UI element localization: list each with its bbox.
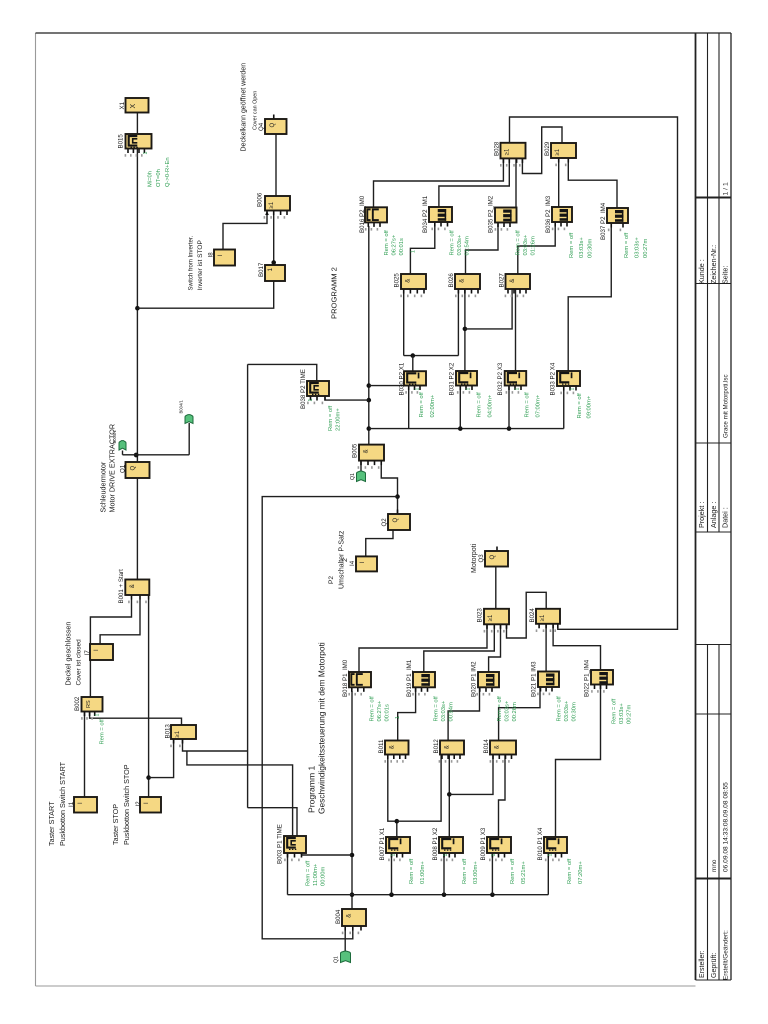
pulse relay B008 xyxy=(432,827,479,884)
operating hours counter B015 xyxy=(117,134,171,187)
wire B032 out to B027 pin2 xyxy=(515,289,517,371)
svg-text:≥1: ≥1 xyxy=(269,201,275,208)
svg-text:Cover ist closed: Cover ist closed xyxy=(76,639,83,686)
and gate B001 xyxy=(118,569,150,604)
svg-text:00:27m: 00:27m xyxy=(643,238,649,258)
svg-text:B006: B006 xyxy=(256,192,263,207)
branch to B038 pin3 xyxy=(325,396,369,400)
svg-text:B007 P1 X1: B007 P1 X1 xyxy=(379,827,386,860)
wire stop net to B003 top-right xyxy=(248,808,297,836)
svg-text:06.09.08 14:33:08.09.08 08:55: 06.09.08 14:33:08.09.08 08:55 xyxy=(723,782,730,872)
branch to B030 pin1 xyxy=(369,385,409,387)
svg-text:B029: B029 xyxy=(544,141,551,156)
svg-text:1: 1 xyxy=(415,388,421,391)
svg-text:OT=0h: OT=0h xyxy=(156,169,162,187)
wire stop net vertical xyxy=(247,364,249,807)
pulse relay B031 xyxy=(448,362,493,417)
svg-text:Rem = off: Rem = off xyxy=(612,698,618,724)
wire B019 out to B023 pin2 xyxy=(424,624,495,672)
stairway switch B037 xyxy=(600,202,649,258)
svg-text:B009 P1 X3: B009 P1 X3 xyxy=(480,827,487,860)
svg-text:B001 + Start: B001 + Start xyxy=(118,569,125,604)
wire B029 out to B028 pin4 xyxy=(522,127,562,174)
or gate B024 xyxy=(529,608,560,632)
svg-text:B014: B014 xyxy=(483,739,490,754)
or gate B013 xyxy=(164,724,196,748)
svg-text:I7: I7 xyxy=(84,650,91,656)
svg-text:05:21m+: 05:21m+ xyxy=(521,861,527,884)
svg-text:09:00m+: 09:00m+ xyxy=(587,395,593,418)
wire B037 out to B029 pin2 xyxy=(568,162,617,208)
svg-text:Grace mit Motorpoti.lsc: Grace mit Motorpoti.lsc xyxy=(723,374,730,438)
svg-text:22:00m+: 22:00m+ xyxy=(336,408,342,431)
output Q2 xyxy=(381,510,410,531)
and gate B011 xyxy=(378,739,409,763)
wire B004 out bus xyxy=(351,691,353,909)
svg-text:Rem = off: Rem = off xyxy=(450,230,456,256)
svg-text:11:00m+: 11:00m+ xyxy=(313,863,319,886)
svg-text:Puskbotton Switch START: Puskbotton Switch START xyxy=(58,761,67,846)
svg-text:B037 P2_IM4: B037 P2_IM4 xyxy=(600,202,607,240)
svg-text:Q1: Q1 xyxy=(120,464,127,473)
svg-text:B019 P1_IM1: B019 P1_IM1 xyxy=(406,659,413,697)
wire stop net to B038 top xyxy=(248,364,317,381)
svg-text:B038 P2 TIME: B038 P2 TIME xyxy=(300,369,307,409)
wire B034 out to B028 pin2 xyxy=(439,158,509,207)
svg-text:Q->0-R+En: Q->0-R+En xyxy=(165,157,171,187)
svg-text:Rem = off: Rem = off xyxy=(419,392,425,418)
wire B008 out to B012 B014 xyxy=(448,755,450,838)
svg-text:Switch from Inverter.: Switch from Inverter. xyxy=(189,235,195,290)
wire I1 to B002 S xyxy=(84,711,86,797)
wire B020 out to B023 pin3 xyxy=(489,624,501,672)
wire B005 flag stem xyxy=(360,461,362,471)
flag B004/1 xyxy=(185,415,193,424)
wire B009 out to B014 xyxy=(499,755,506,838)
svg-text:B030 P2 X1: B030 P2 X1 xyxy=(398,362,405,395)
page frame right border xyxy=(730,33,732,980)
svg-text:X1: X1 xyxy=(119,101,126,109)
wire I4 to Q2 input xyxy=(366,530,393,556)
stairway switch B034 xyxy=(422,195,471,255)
wire B023 out to Q3 xyxy=(495,566,497,609)
svg-text:00:01s: 00:01s xyxy=(399,238,405,256)
wire B022 out to B024 pin3 xyxy=(553,624,600,670)
wire B026 out to B035 pin1 xyxy=(466,223,499,274)
svg-text:Q2: Q2 xyxy=(381,518,388,527)
flag Q1 feedback B004 xyxy=(341,951,351,962)
connector X1 xyxy=(119,98,149,113)
svg-text:mno: mno xyxy=(711,859,718,872)
svg-text:Taster STOP: Taster STOP xyxy=(111,804,120,845)
svg-text:&: & xyxy=(406,279,412,283)
svg-text:B026: B026 xyxy=(448,273,455,288)
svg-text:00:54m: 00:54m xyxy=(449,702,455,722)
svg-text:Geprüft:: Geprüft: xyxy=(711,953,718,978)
svg-text:Datei :: Datei : xyxy=(721,507,730,528)
svg-text:Projekt :: Projekt : xyxy=(697,502,706,528)
svg-text:B015: B015 xyxy=(117,134,124,149)
svg-text:Q3: Q3 xyxy=(478,554,485,563)
svg-text:03:03s+: 03:03s+ xyxy=(457,234,463,255)
svg-text:Seite:: Seite: xyxy=(721,266,730,284)
wire B018 out to B023 pin1 xyxy=(359,624,487,672)
pulse relay B007 xyxy=(379,827,426,884)
svg-text:1: 1 xyxy=(466,388,472,391)
input I1 xyxy=(68,797,97,813)
svg-text:Erstellt/Geändert:: Erstellt/Geändert: xyxy=(723,930,730,980)
svg-text:B024: B024 xyxy=(529,608,536,623)
svg-text:I1: I1 xyxy=(68,801,75,807)
svg-text:03:00m+: 03:00m+ xyxy=(473,861,479,884)
svg-text:Q: Q xyxy=(131,466,137,471)
svg-text:Rem = off: Rem = off xyxy=(306,860,312,886)
or gate B028 xyxy=(493,141,525,167)
timer B038 xyxy=(300,369,342,431)
page frame left border xyxy=(35,33,37,986)
svg-text:I4: I4 xyxy=(349,560,356,566)
svg-text:Rem = off: Rem = off xyxy=(100,719,106,745)
svg-text:B034 P2_IM1: B034 P2_IM1 xyxy=(422,195,429,233)
pulse relay B033 xyxy=(549,362,592,418)
svg-text:1: 1 xyxy=(143,152,149,155)
and gate B025 xyxy=(393,273,426,298)
svg-text:Rem = off: Rem = off xyxy=(434,696,440,722)
svg-text:B017: B017 xyxy=(258,262,265,277)
svg-text:Programm 1: Programm 1 xyxy=(307,766,317,813)
svg-text:00:00m: 00:00m xyxy=(321,866,327,886)
wire B030 out rail to B025 B026 xyxy=(404,355,459,357)
pulse relay B010 xyxy=(537,827,584,884)
wire stop net branch to B003 top-left xyxy=(187,751,293,836)
svg-text:00:30m: 00:30m xyxy=(572,702,578,722)
svg-text:Zeichen-Nr.:: Zeichen-Nr.: xyxy=(709,245,718,284)
and gate B004 xyxy=(335,909,366,934)
svg-text:≥1: ≥1 xyxy=(175,730,181,737)
svg-text:&: & xyxy=(510,279,516,283)
wire B017 input from run net xyxy=(135,306,140,311)
svg-text:B011: B011 xyxy=(378,739,385,753)
svg-text:03:03s+: 03:03s+ xyxy=(635,237,641,258)
svg-text:03:03s+: 03:03s+ xyxy=(579,237,585,258)
svg-text:Rem = off: Rem = off xyxy=(477,392,483,418)
flag B005/1 xyxy=(119,441,126,450)
wire main run net X1-B015-Q1 xyxy=(136,113,138,463)
svg-text:1 / 1: 1 / 1 xyxy=(723,182,730,195)
svg-text:B021 P1 IM3: B021 P1 IM3 xyxy=(530,661,537,697)
svg-text:03:03s+: 03:03s+ xyxy=(441,700,447,721)
svg-text:B028: B028 xyxy=(493,141,500,156)
svg-text:Rem = off: Rem = off xyxy=(577,393,583,419)
svg-text:Rem = off: Rem = off xyxy=(328,405,334,431)
wire I8 to B006 pin1 xyxy=(223,214,267,249)
output Q4 xyxy=(258,115,287,135)
svg-text:Q1: Q1 xyxy=(350,473,356,480)
wire B028 out long to B024 pin4 xyxy=(510,117,678,629)
wire B036 out to B029 pin1 xyxy=(558,162,560,207)
wire B005 out bus program2 xyxy=(368,226,370,445)
svg-text:1: 1 xyxy=(411,250,417,253)
input I2 xyxy=(135,797,161,813)
svg-text:Q4: Q4 xyxy=(258,122,265,131)
svg-text:Schleudermotor: Schleudermotor xyxy=(98,461,107,512)
wire Q2 passthrough net xyxy=(381,465,397,514)
svg-text:&: & xyxy=(364,449,370,453)
rail program2 trigger xyxy=(369,428,564,430)
svg-text:Q: Q xyxy=(270,123,276,128)
svg-text:RS: RS xyxy=(86,700,92,708)
pulse relay B030 xyxy=(398,362,436,417)
svg-text:B002: B002 xyxy=(74,696,81,711)
svg-text:B004: B004 xyxy=(335,909,342,924)
svg-text:B005: B005 xyxy=(351,443,358,458)
svg-text:1: 1 xyxy=(548,854,554,857)
svg-text:&: & xyxy=(495,745,501,749)
and gate B026 xyxy=(448,273,480,298)
pulse relay B032 xyxy=(497,362,542,417)
icon text B017 xyxy=(267,268,274,272)
svg-text:06:27s+: 06:27s+ xyxy=(377,700,383,721)
wire Q1 to B001 xyxy=(136,478,138,580)
wire I2 net to B013 pin1 xyxy=(149,739,174,778)
svg-text:P2: P2 xyxy=(328,576,335,584)
and gate B014 xyxy=(483,739,516,763)
wire to flag B005/1 xyxy=(123,454,138,456)
flag Q1 feedback B005 xyxy=(357,471,366,481)
svg-text:03:03s+: 03:03s+ xyxy=(619,703,625,724)
svg-text:Rem = off: Rem = off xyxy=(510,858,516,884)
wire I2 net to B001 pin3 xyxy=(148,600,150,798)
svg-text:≥1: ≥1 xyxy=(488,614,494,621)
svg-text:1: 1 xyxy=(308,399,314,402)
stairway switch B035 xyxy=(487,195,536,255)
svg-text:B004/1: B004/1 xyxy=(179,400,184,414)
svg-text:B013: B013 xyxy=(164,724,171,739)
stairway switch B020 xyxy=(470,661,518,722)
svg-text:Rem = off: Rem = off xyxy=(462,858,468,884)
and gate B005 xyxy=(351,443,384,469)
or gate B029 xyxy=(544,141,576,166)
input I7 xyxy=(84,644,113,660)
timer B003 xyxy=(276,824,326,886)
wire B014 out to B021 pin1 xyxy=(499,687,540,740)
wire B035 out to B028 pin3 xyxy=(515,158,517,207)
svg-text:Taster START: Taster START xyxy=(47,801,56,846)
wire B013 pin2 net xyxy=(183,739,248,751)
svg-text:01:00m+: 01:00m+ xyxy=(420,861,426,884)
not gate B017 xyxy=(258,262,285,281)
arrow at B006 pin1 xyxy=(265,211,269,215)
wire B002 out to B001 pin1 xyxy=(90,600,131,698)
svg-text:03:03s+: 03:03s+ xyxy=(505,700,511,721)
svg-text:Inverter ist STOP: Inverter ist STOP xyxy=(197,239,204,290)
svg-text:B032 P2 X3: B032 P2 X3 xyxy=(497,362,504,395)
page frame bottom border xyxy=(36,985,696,987)
svg-text:X: X xyxy=(130,104,137,109)
svg-text:1: 1 xyxy=(395,716,401,719)
svg-text:I8: I8 xyxy=(207,252,214,258)
stairway switch B022 xyxy=(583,659,632,724)
wire B013 out to B002 R xyxy=(90,711,182,725)
svg-text:Rem = off: Rem = off xyxy=(370,696,376,722)
input I4 xyxy=(349,556,377,571)
svg-text:B033 P2 X4: B033 P2 X4 xyxy=(549,362,556,395)
stairway switch B036 xyxy=(545,195,594,258)
rs latch B002 xyxy=(74,696,106,744)
svg-text:B018 P1_IM0: B018 P1_IM0 xyxy=(342,659,349,697)
rail program1 trigger xyxy=(288,894,549,896)
output Q1 motor xyxy=(120,462,150,478)
wire B031 out to B026 pin2 and B027 pin1 xyxy=(464,289,466,371)
svg-text:1: 1 xyxy=(570,388,576,391)
page frame top border xyxy=(36,32,732,34)
junction Q2 net xyxy=(395,494,400,499)
svg-text:B027: B027 xyxy=(498,273,505,288)
svg-text:B020 P1 IM2: B020 P1 IM2 xyxy=(470,661,477,697)
svg-text:Rem = off: Rem = off xyxy=(567,858,573,884)
svg-text:Rem = off: Rem = off xyxy=(516,230,522,256)
wire Q2 net to B004 pin2 xyxy=(262,497,397,939)
svg-text:Rem = off: Rem = off xyxy=(384,230,390,256)
svg-text:01:54m: 01:54m xyxy=(465,236,471,256)
svg-text:≥1: ≥1 xyxy=(540,614,546,621)
wire I7 to B001 pin2 xyxy=(100,600,140,645)
svg-text:03:03s+: 03:03s+ xyxy=(564,700,570,721)
wire B021 out to B024 pin2 xyxy=(545,624,547,672)
pulse generator B016 xyxy=(359,195,405,255)
or gate B006 xyxy=(256,192,290,219)
stairway switch B019 xyxy=(406,659,455,721)
svg-text:06:27s+: 06:27s+ xyxy=(392,234,398,255)
wire B024 out to B023 pin4 xyxy=(507,592,547,638)
svg-text:PROGRAMM 2: PROGRAMM 2 xyxy=(330,267,339,319)
svg-text:1: 1 xyxy=(95,714,101,717)
wire B027 out to B036 pin1 xyxy=(518,222,555,274)
svg-text:I2: I2 xyxy=(135,801,142,807)
svg-text:Rem = off: Rem = off xyxy=(557,696,563,722)
svg-text:B003 P1 TIME: B003 P1 TIME xyxy=(276,824,283,864)
svg-text:00:01s: 00:01s xyxy=(385,704,391,722)
pulse relay B009 xyxy=(480,827,527,884)
svg-text:Rem = off: Rem = off xyxy=(497,696,503,722)
svg-text:03:03s+: 03:03s+ xyxy=(523,234,529,255)
svg-text:B022 P1_IM4: B022 P1_IM4 xyxy=(583,659,590,697)
svg-text:Q: Q xyxy=(490,555,496,560)
svg-text:≥1: ≥1 xyxy=(505,148,511,155)
wire to flag B004/1 xyxy=(137,454,189,456)
svg-text:Rem = off: Rem = off xyxy=(624,232,630,258)
svg-text:Rem = off: Rem = off xyxy=(525,392,531,418)
svg-text:&: & xyxy=(390,745,396,749)
wire B007 out to B011 B012 xyxy=(388,755,397,838)
svg-text:1: 1 xyxy=(267,268,274,272)
or gate B023 xyxy=(476,608,509,633)
and gate B027 xyxy=(498,273,530,298)
svg-text:Rem = off: Rem = off xyxy=(409,858,415,884)
svg-text:04:00m+: 04:00m+ xyxy=(488,394,494,417)
svg-text:Kunde :: Kunde : xyxy=(697,259,706,284)
svg-text:1: 1 xyxy=(491,854,497,857)
svg-text:B016 P2_IM0: B016 P2_IM0 xyxy=(359,195,366,233)
svg-text:&: & xyxy=(445,745,451,749)
wire B012 out to B020 pin1 xyxy=(448,687,479,740)
svg-text:B012: B012 xyxy=(433,739,440,754)
wire B003 right pin to bus xyxy=(302,854,353,856)
svg-text:Deckel geschlossen: Deckel geschlossen xyxy=(63,622,72,686)
svg-text:B005/1: B005/1 xyxy=(112,430,117,444)
wire B006 out to Q4 xyxy=(275,134,277,196)
svg-text:&: & xyxy=(347,914,353,918)
svg-text:1: 1 xyxy=(391,854,397,857)
svg-text:&: & xyxy=(460,279,466,283)
svg-text:B008 P1 X2: B008 P1 X2 xyxy=(432,827,439,860)
svg-text:Anlage :: Anlage : xyxy=(709,502,718,528)
output Q3 xyxy=(478,547,508,567)
svg-text:≥1: ≥1 xyxy=(555,148,561,155)
junction I2 net xyxy=(146,775,151,780)
title block column lines xyxy=(695,33,697,980)
input I8 xyxy=(207,250,235,266)
svg-text:B035 P2_IM2: B035 P2_IM2 xyxy=(487,195,494,233)
wire B017 out to B006 xyxy=(273,210,275,265)
svg-text:02:00m+: 02:00m+ xyxy=(430,394,436,417)
stairway switch B021 xyxy=(530,661,577,722)
svg-text:1: 1 xyxy=(443,854,449,857)
wire B033 out to B037 input xyxy=(568,227,611,371)
svg-text:B031 P2 X2: B031 P2 X2 xyxy=(448,362,455,395)
wire B010 out to B022 input xyxy=(556,685,601,838)
svg-text:B036 P2_IM3: B036 P2_IM3 xyxy=(545,195,552,233)
junction run net xyxy=(134,453,139,458)
title block row dividers xyxy=(696,197,732,199)
svg-text:Deckelkann geöffnet werden: Deckelkann geöffnet werden xyxy=(241,63,248,152)
svg-text:Geschwindigkeitssteuerung mit: Geschwindigkeitssteuerung mit dem Motorp… xyxy=(317,642,327,814)
wire B025 out to B034 pin1 xyxy=(410,222,434,274)
pulse generator B018 xyxy=(342,659,391,721)
svg-text:07:00m+: 07:00m+ xyxy=(536,394,542,417)
svg-text:B025: B025 xyxy=(393,273,400,288)
svg-text:1: 1 xyxy=(515,388,521,391)
svg-text:Rem = off: Rem = off xyxy=(569,232,575,258)
svg-text:Q1: Q1 xyxy=(334,956,340,963)
svg-text:B023: B023 xyxy=(476,608,483,623)
svg-text:Mi=0h: Mi=0h xyxy=(148,171,154,187)
svg-text:B010 P1 X4: B010 P1 X4 xyxy=(537,827,544,860)
wire B016 out to B028 pin1 xyxy=(374,158,504,207)
svg-text:Ersteller:: Ersteller: xyxy=(699,950,706,978)
svg-text:00:27m: 00:27m xyxy=(627,704,633,724)
svg-text:Q: Q xyxy=(393,518,399,523)
and gate B012 xyxy=(433,739,464,763)
svg-text:00:30m: 00:30m xyxy=(588,238,594,258)
wire B004 flag stem xyxy=(344,926,346,951)
svg-text:07:20m+: 07:20m+ xyxy=(578,861,584,884)
svg-text:Puskbotton Switch STOP: Puskbotton Switch STOP xyxy=(122,764,131,845)
svg-text:&: & xyxy=(130,584,136,588)
svg-text:01:26m: 01:26m xyxy=(531,236,537,256)
wire B011 out to B019 pin1 xyxy=(398,687,416,740)
svg-text:00:26m: 00:26m xyxy=(512,702,518,722)
